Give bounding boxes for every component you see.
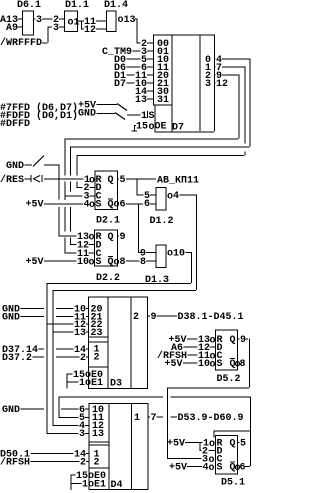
wire D1.2 net to D3 pin13 — [53, 332, 74, 333]
pin 4 of D4 — [79, 421, 104, 432]
pin 11 of D5.2 — [198, 351, 223, 363]
D3 section split 1 — [89, 337, 108, 343]
pin 2 of D4 — [80, 458, 100, 469]
net label D37.2 — [2, 353, 80, 364]
pin Q of D5.1 — [230, 439, 240, 450]
svg-text:13: 13 — [92, 429, 104, 440]
svg-text:6: 6 — [240, 463, 246, 474]
svg-text:D4: D4 — [111, 480, 123, 491]
svg-text:D38.1-D45.1: D38.1-D45.1 — [178, 312, 244, 323]
net label A13 — [0, 15, 22, 26]
svg-text:GND: GND — [78, 109, 96, 120]
svg-text:5: 5 — [240, 439, 246, 450]
pin 3 of D4 — [79, 429, 104, 440]
net label C_TM9 — [102, 47, 141, 58]
pin 2 of D1.1 — [53, 15, 64, 26]
pin 10 out of D1.3 — [167, 249, 191, 260]
svg-text:D5.2: D5.2 — [217, 374, 241, 385]
pin 3 of D2.1 — [84, 192, 102, 203]
svg-text:31: 31 — [157, 95, 169, 106]
wire D1.2 out down — [53, 195, 198, 332]
pin 14 of D7 — [135, 87, 153, 98]
svg-text:9: 9 — [120, 232, 126, 243]
pin 12 of D5.2 — [198, 343, 223, 354]
svg-text:S: S — [149, 111, 155, 122]
pin 10 of D2.2 — [77, 257, 102, 269]
net label /RES — [0, 174, 31, 186]
pin 2 of D7 — [141, 39, 153, 50]
svg-text:GND: GND — [2, 405, 20, 416]
ground GND to D4 pin6 — [2, 405, 79, 416]
wire /WRFFFD to D1.1 pin 3 — [48, 27, 53, 43]
pin 3 label of D1.1 — [53, 23, 64, 34]
power +5V to D5.2 S — [165, 359, 198, 370]
IC D3 box — [89, 297, 148, 389]
IC label D1.4 — [104, 0, 128, 11]
svg-text:9: 9 — [151, 312, 157, 323]
svg-text:3: 3 — [53, 23, 59, 34]
IC label D1.3 — [145, 275, 169, 286]
svg-text:D1.2: D1.2 — [150, 216, 174, 227]
svg-text:GND: GND — [2, 313, 20, 324]
bus wire pin7 net — [77, 67, 246, 157]
gate D1.1 box — [65, 11, 80, 32]
pin 14 of D4 — [74, 450, 100, 461]
bus wire pin9 net — [65, 75, 240, 140]
trigger D5.1 box — [216, 436, 238, 475]
output 1 pin 7 of D4 — [134, 413, 177, 424]
wire D5.2 Q9 down to D5.1 C — [167, 339, 250, 460]
wire D1.3 out down — [47, 252, 193, 324]
net label /WRFFFD — [0, 37, 48, 49]
pin 12 of D3 — [74, 320, 103, 331]
pin 4 of D5.1 — [203, 463, 223, 475]
svg-text:+5V: +5V — [169, 463, 187, 474]
pin 5 Q out of D2.1 — [108, 199, 144, 211]
power +5V switch top — [78, 101, 127, 112]
svg-text:D1.4: D1.4 — [104, 0, 128, 11]
IC D4 divider 2 — [131, 404, 132, 490]
svg-text:6: 6 — [144, 199, 150, 210]
pin 13 of D7 — [135, 95, 153, 106]
bus left leg pin4 net — [70, 147, 77, 246]
svg-text:15: 15 — [136, 122, 148, 133]
svg-text:1: 1 — [134, 413, 140, 424]
svg-text:/WRFFFD: /WRFFFD — [0, 37, 42, 49]
svg-text:o1: o1 — [68, 18, 80, 29]
IC D4 box — [89, 404, 148, 490]
power +5V to D2.2 S — [26, 257, 77, 268]
input labels 00-31 of D7 — [157, 39, 169, 106]
wire /RES to D2.1 R — [44, 179, 84, 180]
net label AB_KP11 — [157, 176, 199, 187]
pin 15 E0 of D4 — [71, 471, 107, 482]
pin 11 of D7 — [135, 71, 153, 82]
pin 9 of D1.3 — [140, 249, 156, 260]
pin 15 OE of D7 — [136, 122, 167, 134]
pin 10 of D7 — [135, 79, 153, 90]
pin 5 of D7 — [141, 55, 153, 66]
svg-text:2: 2 — [133, 312, 139, 323]
svg-text:#DFFD: #DFFD — [0, 119, 30, 130]
svg-text:o: o — [210, 336, 216, 347]
svg-text:A9: A9 — [6, 23, 18, 34]
svg-text:9: 9 — [240, 335, 246, 346]
pin 11 of D2.2 — [77, 249, 102, 260]
net label D1 — [114, 71, 135, 82]
svg-text:2: 2 — [80, 458, 86, 469]
svg-text:S: S — [217, 359, 223, 370]
pin 10 of D5.2 — [198, 359, 223, 371]
svg-text:o13: o13 — [118, 15, 136, 26]
svg-text:10: 10 — [77, 257, 89, 268]
gate D1.3 box — [156, 245, 166, 268]
E tie stub of D3 — [67, 382, 68, 389]
svg-text:4: 4 — [173, 191, 179, 202]
wire RES net down to D2.2 — [59, 179, 77, 237]
pin 13 of D3 — [74, 328, 103, 339]
wire Q5 down to D1.2 pin5 — [137, 179, 144, 196]
power +5V to D5.1 S — [169, 463, 202, 474]
D4 section split 1 — [89, 442, 109, 446]
pin 2 of D5.1 — [202, 447, 223, 458]
pin 13 of D1.4 output — [118, 15, 137, 26]
net label #FDFD — [0, 110, 78, 122]
gate D6.1 box — [23, 11, 34, 35]
bus left leg pin9 net lower — [65, 196, 77, 254]
svg-text:Q: Q — [230, 439, 236, 450]
svg-text:D6.1: D6.1 — [17, 0, 41, 11]
svg-text:D7: D7 — [172, 123, 184, 134]
net label D6 — [114, 63, 141, 74]
pin 6 of D7 — [141, 63, 153, 74]
net label D53.9-D60.9 — [178, 413, 244, 424]
svg-text:D3: D3 — [110, 379, 122, 390]
svg-text:o: o — [89, 258, 95, 269]
pin 9 of D2.2 — [118, 232, 126, 243]
pin 2 of D3 — [80, 353, 100, 365]
svg-text:1oE1: 1oE1 — [79, 378, 103, 389]
bus left leg pin9 net — [65, 139, 83, 197]
IC label D2.1 — [96, 216, 120, 227]
net label /RFSH bottom — [0, 457, 80, 469]
bus wire pin4 net — [70, 59, 251, 148]
IC D7 box — [153, 35, 215, 133]
svg-text:o: o — [89, 176, 95, 187]
svg-text:D37.2: D37.2 — [2, 353, 32, 364]
svg-text:1: 1 — [141, 111, 147, 122]
ground GND to D3 pin10 — [2, 305, 74, 316]
svg-text:10: 10 — [198, 359, 210, 370]
svg-text:1oE1: 1oE1 — [82, 480, 106, 491]
pin 8 Q out of D2.2 — [108, 256, 140, 269]
svg-text:+5V: +5V — [26, 200, 44, 211]
svg-text:D2.1: D2.1 — [96, 216, 120, 227]
pin 11 of D1.4 — [84, 17, 106, 28]
svg-text:Q: Q — [230, 335, 236, 346]
pin 1 of D2.1 — [84, 175, 95, 187]
svg-text:/RES: /RES — [0, 174, 24, 186]
wire pin9net to D2.1 C — [65, 196, 83, 197]
svg-text:5: 5 — [120, 175, 126, 186]
wire D5.1 Q6 net corner — [59, 397, 79, 419]
pin 5 out of D5.1 — [240, 439, 246, 450]
svg-text:D1.1: D1.1 — [65, 0, 89, 11]
S/E notch edge of D7 — [155, 105, 156, 132]
net label A9 — [6, 23, 22, 34]
pin 6 out of D5.1 — [230, 462, 251, 475]
svg-text:8: 8 — [240, 359, 246, 370]
pin 3 of D5.1 — [202, 455, 223, 467]
D3 section split 2 — [89, 367, 108, 368]
pin 8 out of D5.2 — [230, 358, 246, 371]
net label #DFFD — [0, 119, 30, 130]
svg-text:D7: D7 — [114, 79, 126, 90]
svg-text:2: 2 — [94, 458, 100, 469]
svg-text:o: o — [209, 463, 215, 474]
pin Q of D5.2 — [230, 335, 240, 346]
svg-text:2: 2 — [94, 353, 100, 364]
svg-text:8: 8 — [140, 257, 146, 268]
net label #7FFD — [0, 102, 78, 114]
pin 1 E1 of D3 — [67, 374, 104, 390]
svg-text:3: 3 — [205, 79, 211, 90]
pin 5 of D2.1 Q top — [118, 175, 156, 186]
pin 12 of D2.2 — [77, 241, 102, 252]
trigger D2.1 box — [95, 171, 118, 210]
power +5V to D5.2 R — [169, 335, 198, 346]
net label D38.1-D45.1 — [178, 312, 244, 323]
pin 10 of D3 — [74, 305, 103, 316]
ground GND switch top — [78, 109, 125, 120]
pin 6 of D1.2 — [144, 199, 156, 210]
IC label D1.1 — [65, 0, 89, 11]
svg-text:Q: Q — [108, 175, 114, 186]
IC label D6.1 — [17, 0, 41, 11]
svg-text:8: 8 — [120, 257, 126, 268]
pin 12 of D1.4 — [84, 25, 106, 36]
svg-text:S: S — [96, 257, 102, 268]
IC D7 divider 1 — [153, 35, 173, 132]
pin 13 of D5.2 — [198, 335, 223, 347]
svg-text:D5.1: D5.1 — [221, 478, 245, 489]
IC D3 divider 2 — [131, 297, 132, 389]
svg-text:GND: GND — [6, 161, 24, 172]
net label D0 — [114, 55, 141, 66]
output 1 pin 7 of D7 — [205, 63, 245, 74]
output 3 pin 12 of D7 — [205, 79, 228, 90]
net label D37.14 — [2, 345, 74, 356]
pin 8 of D1.3 — [140, 257, 156, 268]
pin 5 of D1.2 — [144, 191, 156, 202]
IC label D7 — [172, 123, 184, 134]
wire switch to RES net — [59, 165, 60, 179]
svg-text:13: 13 — [135, 95, 147, 106]
pin 2 of D2.1 — [84, 183, 102, 194]
pin 13 of D2.2 — [77, 232, 114, 244]
IC label D4 — [111, 480, 123, 491]
svg-text:3: 3 — [79, 429, 85, 440]
svg-text:o: o — [89, 200, 95, 211]
svg-text:OE: OE — [155, 122, 167, 133]
svg-text:o: o — [89, 233, 95, 244]
svg-text:D1.3: D1.3 — [145, 275, 169, 286]
IC label D3 — [110, 379, 122, 390]
pin labels R Q of D2.1 — [96, 175, 114, 186]
IC D4 divider 1 — [109, 404, 110, 490]
svg-text:+5V: +5V — [167, 439, 185, 450]
D4 section split 2 — [89, 468, 109, 469]
pin 15 E0 of D3 — [67, 370, 104, 381]
ground tie on E pin — [132, 125, 138, 132]
wire o6 tee to D1.3 pin9 — [138, 204, 144, 254]
svg-text:13: 13 — [74, 328, 86, 339]
power +5V to D5.1 R — [167, 439, 203, 450]
pin 1 S of D7 — [127, 111, 155, 122]
net label /RFSH right — [157, 350, 198, 362]
svg-text:S: S — [96, 200, 102, 211]
diode VD on /RES — [31, 175, 43, 182]
pin 5 of D4 — [79, 413, 104, 424]
gate D1.2 box — [156, 188, 166, 211]
gate D1.4 box — [107, 11, 117, 32]
bus left leg pin7 net — [77, 155, 83, 188]
ground GND to D3 pin11 — [2, 313, 74, 324]
IC D7 divider 2 — [200, 35, 201, 131]
pin 4 of D2.1 — [84, 200, 102, 212]
svg-text:D53.9-D60.9: D53.9-D60.9 — [178, 413, 244, 424]
svg-text:3: 3 — [36, 15, 42, 26]
IC D3 divider 1 — [108, 297, 109, 389]
IC label D5.2 — [217, 374, 241, 385]
svg-text:S: S — [217, 463, 223, 474]
svg-text:+5V: +5V — [165, 359, 183, 370]
wire D1.1 output tee — [78, 21, 84, 30]
svg-text:10: 10 — [173, 249, 185, 260]
output 2 pin 9 of D7 — [205, 71, 239, 82]
svg-text:2: 2 — [80, 353, 86, 364]
pin 14 of D3 — [74, 345, 100, 357]
wire D1.3 net to D3 pin12 — [47, 324, 74, 325]
ground GND reset switch — [6, 156, 59, 173]
pin 3 of D7 — [141, 47, 153, 58]
svg-text:12: 12 — [84, 25, 96, 36]
pin 3 of D6.1 output — [34, 15, 53, 26]
power +5V to D2.1 S — [26, 200, 84, 211]
svg-text:6: 6 — [120, 200, 126, 211]
output 0 pin 4 of D7 — [205, 55, 250, 66]
svg-text:o: o — [209, 439, 215, 450]
trigger D5.2 box — [216, 330, 238, 370]
pin 6 of D4 — [79, 405, 104, 416]
output 2 pin 9 of D3 — [133, 312, 177, 323]
IC label D5.1 — [221, 478, 245, 489]
wire D1.3 net down to D4 — [47, 324, 79, 435]
wire +5V tie to D5.1 D — [200, 442, 202, 451]
IC label D2.2 — [96, 273, 120, 284]
svg-text:12: 12 — [216, 79, 228, 90]
wire D1.4 out to D7 pin 2 — [137, 19, 141, 44]
pin 9 out of D5.2 — [240, 335, 248, 346]
wire D1.2 net down to D4 — [53, 332, 79, 427]
svg-text:D2.2: D2.2 — [96, 273, 120, 284]
svg-text:7: 7 — [151, 413, 157, 424]
net label A6 — [171, 343, 198, 354]
svg-text:/RFSH: /RFSH — [0, 457, 30, 469]
pin 4 out of D1.2 — [167, 191, 196, 203]
long wire Q6 net — [59, 397, 252, 467]
pin 11 of D3 — [74, 313, 103, 324]
svg-text:+5V: +5V — [26, 257, 44, 268]
pin 1 E1 of D4 — [71, 475, 107, 491]
net label D50.1 — [0, 450, 74, 461]
pin 1 of D5.1 — [203, 439, 223, 451]
net label D7sig — [114, 79, 135, 90]
E tie stub of D4 — [71, 483, 72, 490]
svg-text:АВ_КП11: АВ_КП11 — [157, 176, 199, 187]
svg-text:Q: Q — [108, 232, 114, 243]
svg-text:o: o — [210, 360, 216, 371]
IC label D1.2 — [150, 216, 174, 227]
trigger D2.2 box — [95, 230, 118, 266]
